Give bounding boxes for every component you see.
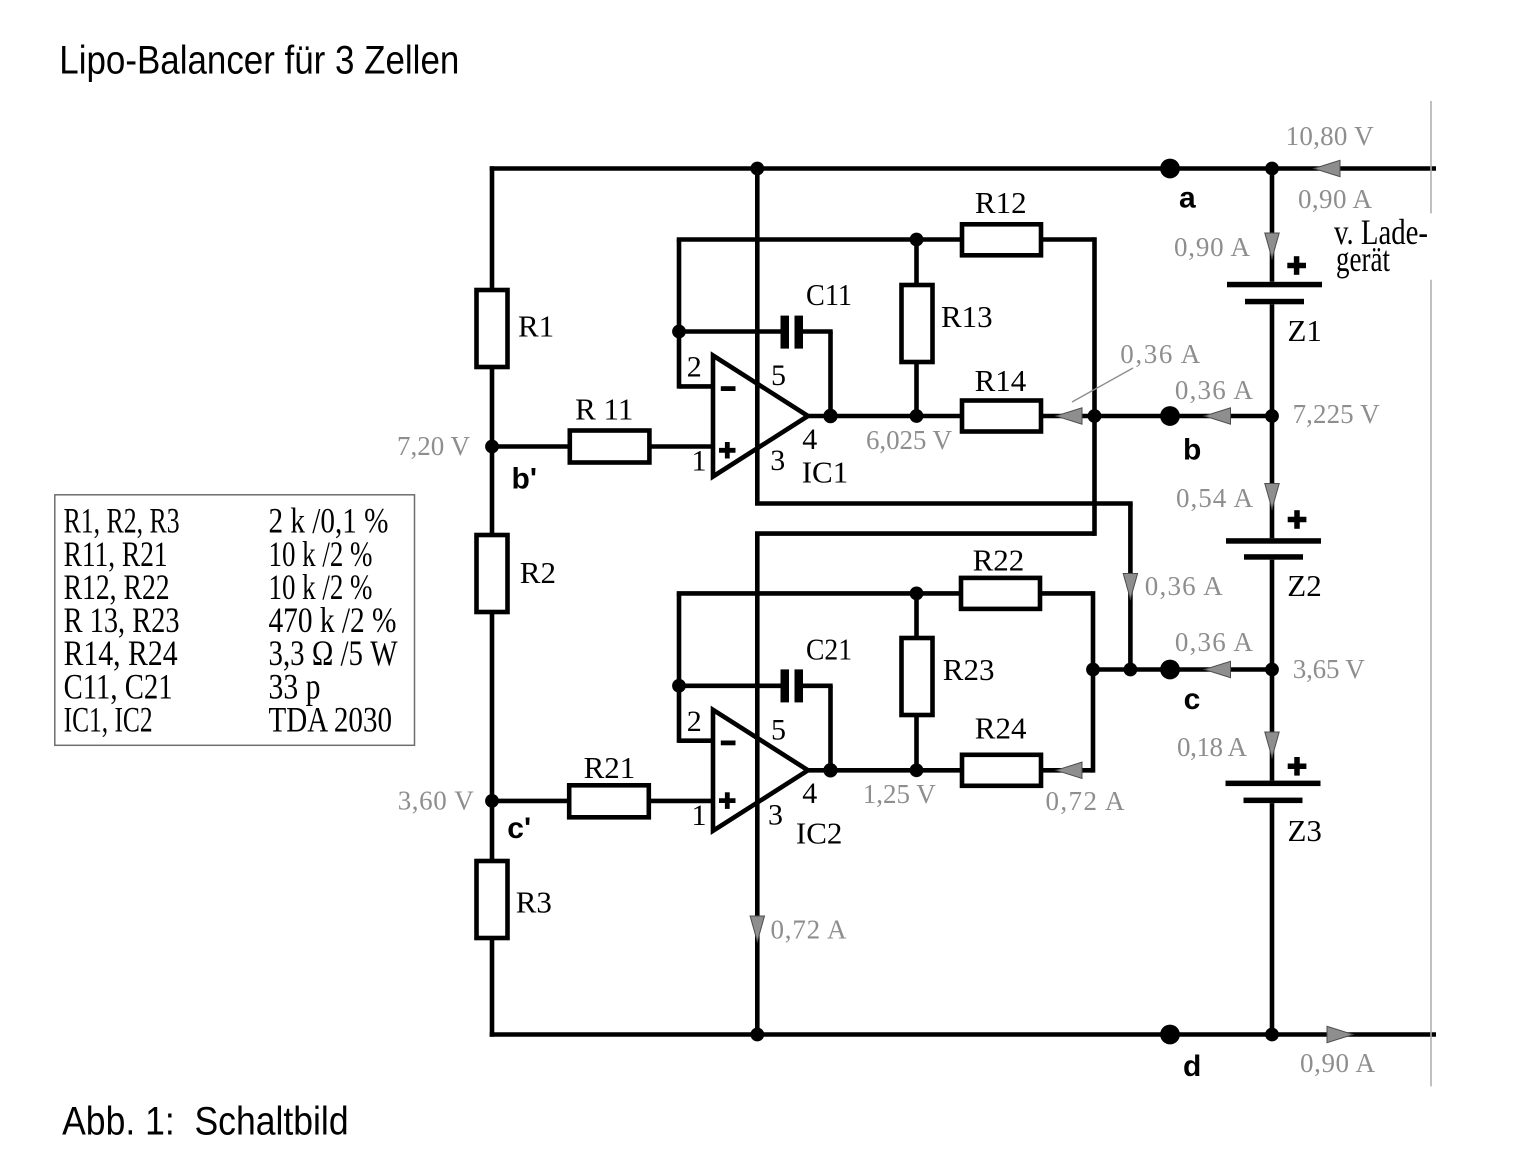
resistor R3 (477, 861, 508, 938)
op-amp IC2 triangle (713, 710, 808, 831)
svg-text:0,36 A: 0,36 A (1120, 339, 1201, 369)
battery Z2 positive plate (1226, 538, 1321, 544)
svg-text:IC2: IC2 (796, 816, 843, 851)
wire C21 left lead (679, 683, 781, 688)
svg-text:R12: R12 (975, 185, 1027, 220)
battery Z2 negative plate (1244, 554, 1303, 560)
svg-text:1: 1 (692, 799, 707, 832)
wire left vertical (R1-R2-R3 chain) (490, 166, 495, 1037)
op-amp IC1 triangle (713, 356, 808, 477)
current arrow 0,90 A into top rail (1314, 160, 1340, 176)
junction node c net / R22-R24 vertical (1086, 663, 1100, 677)
wire top rail (node a net) (490, 166, 1436, 171)
wire Z1 minus to node b (1270, 304, 1275, 416)
svg-text:R1: R1 (518, 309, 554, 344)
svg-text:R13: R13 (941, 299, 993, 334)
svg-text:0,36 A: 0,36 A (1175, 627, 1254, 657)
junction R12/R13 (910, 233, 924, 247)
svg-text:0,72 A: 0,72 A (771, 915, 848, 945)
resistor R 11 (570, 431, 650, 463)
svg-text:d: d (1183, 1050, 1201, 1083)
wire node a to Z1 plus (1270, 169, 1275, 282)
node c dot (1160, 660, 1180, 680)
wire IC1 feedback top (pin2 to R12/R13) (677, 237, 962, 242)
component value table box (55, 495, 415, 746)
wire IC2 output to R24 (806, 768, 962, 773)
wire IC1 pin3 down to node c (1128, 504, 1133, 670)
svg-text:0,36 A: 0,36 A (1175, 375, 1254, 405)
wire IC1 pin3 to node c horizontal (755, 501, 1133, 506)
current arrow 0,36 A toward node c (1205, 661, 1231, 677)
wire C11 to IC1 output (828, 332, 833, 417)
svg-text:1,25 V: 1,25 V (863, 779, 937, 809)
wire IC1 pin2 vertical (677, 240, 682, 389)
junction node b' (485, 440, 499, 454)
resistor R12 (962, 224, 1041, 255)
svg-text:5: 5 (771, 359, 786, 392)
svg-text:0,90 A: 0,90 A (1298, 184, 1373, 214)
wire C21 to IC2 output (828, 686, 833, 771)
svg-text:0,18 A: 0,18 A (1177, 732, 1248, 762)
resistor R2 (477, 535, 508, 612)
wire C11 left lead (679, 329, 781, 334)
op-amp IC1 non-inverting input plus sign (719, 448, 736, 453)
capacitor C21 left plate (781, 669, 790, 702)
current arrow 0,54 A into Z2 (1265, 484, 1279, 510)
wire node b net to IC2 pin5 horizontal (755, 531, 1095, 536)
wire IC1 output to R14 (806, 414, 962, 419)
current arrow 0,36 A toward node b (1205, 408, 1231, 424)
svg-text:0,54 A: 0,54 A (1176, 483, 1254, 513)
junction R23/output (910, 763, 924, 777)
capacitor C21 right plate (795, 669, 804, 702)
wire R22 right (1041, 591, 1093, 596)
junction R22/R23 (910, 587, 924, 601)
svg-text:4: 4 (802, 777, 817, 810)
junction R13/output (910, 409, 924, 423)
wire R14 right to node b net (1041, 414, 1095, 419)
wire Z2 minus to node c (1270, 560, 1275, 670)
page separator line (1430, 101, 1432, 213)
svg-text:c': c' (507, 812, 531, 845)
svg-text:0,90 A: 0,90 A (1174, 232, 1251, 262)
svg-text:5: 5 (771, 714, 786, 747)
svg-text:Z1: Z1 (1288, 313, 1322, 348)
svg-text:R 11: R 11 (575, 392, 633, 427)
current arrow 0,36 A into R14 (1056, 408, 1082, 424)
wire IC2 pin2 stub (679, 738, 714, 743)
op-amp IC1 inverting input minus sign (721, 386, 736, 391)
svg-text:Z2: Z2 (1287, 568, 1321, 603)
svg-text:R23: R23 (943, 652, 995, 687)
svg-text:R3: R3 (516, 884, 552, 919)
wire IC1 pin5/pin3 power vertical (top rail to node c net) (755, 169, 760, 504)
wire node b to Z2 plus (1270, 416, 1275, 538)
svg-text:7,225 V: 7,225 V (1293, 399, 1381, 429)
wire node c to Z3 plus (1270, 670, 1275, 781)
svg-text:c: c (1184, 683, 1201, 716)
svg-text:10,80 V: 10,80 V (1286, 121, 1375, 151)
current arrow 0,36 A from IC1 pin3 (1123, 574, 1137, 600)
svg-text:2: 2 (687, 351, 702, 384)
wire IC2 pin2 vertical (677, 593, 682, 743)
capacitor C11 left plate (781, 316, 790, 349)
capacitor C11 right plate (795, 316, 804, 349)
junction IC1 pin2 / C11 (672, 325, 686, 339)
svg-text:2: 2 (687, 705, 702, 738)
svg-text:TDA 2030: TDA 2030 (269, 700, 393, 740)
junction node c' (485, 794, 499, 808)
wire right vertical R12-R14 down to IC2 supply (1092, 237, 1097, 536)
svg-text:a: a (1179, 182, 1196, 215)
wire IC2 feedback top (pin2 to R22/R23) (677, 591, 961, 596)
resistor R1 (477, 290, 508, 367)
op-amp IC2 inverting input minus sign (721, 741, 736, 746)
junction bottom rail / IC2 pin3 (750, 1028, 764, 1042)
op-amp IC2 non-inverting input plus sign (719, 798, 736, 803)
resistor R22 (961, 578, 1040, 609)
svg-text:0,36 A: 0,36 A (1145, 571, 1224, 601)
svg-text:C21: C21 (806, 631, 852, 666)
current arrow 0,72 A into R24 (1056, 762, 1082, 778)
node d dot (1160, 1025, 1180, 1045)
junction IC1 output / C11 (823, 409, 837, 423)
wire R12 right (1041, 237, 1095, 242)
resistor R14 (962, 401, 1041, 432)
svg-text:3,60 V: 3,60 V (398, 786, 475, 816)
svg-text:3: 3 (770, 444, 785, 477)
battery Z1 plus sign (1287, 263, 1306, 269)
wire C21 right lead (803, 683, 833, 688)
wire R23 branch vertical (914, 593, 919, 770)
wire node b' to IC1 pin1 (through R 11) (492, 444, 713, 449)
svg-text:C11: C11 (806, 277, 852, 312)
junction top rail / IC1 pin5 (750, 162, 764, 176)
svg-text:b: b (1183, 434, 1201, 467)
battery Z2 plus sign (1288, 517, 1307, 523)
svg-text:Lipo-Balancer für 3 Zellen: Lipo-Balancer für 3 Zellen (59, 39, 459, 83)
svg-text:6,025 V: 6,025 V (866, 425, 953, 455)
svg-text:R22: R22 (973, 543, 1025, 578)
svg-text:R14: R14 (975, 363, 1027, 398)
battery Z1 negative plate (1245, 299, 1304, 305)
junction node c / battery Z2-Z3 (1265, 663, 1279, 677)
wire node c line to battery Z2/Z3 junction (1093, 667, 1272, 672)
junction top rail / battery (1265, 162, 1279, 176)
svg-text:IC1: IC1 (802, 454, 849, 489)
current arrow 0,90 A into Z1 (1265, 233, 1279, 259)
svg-text:Abb. 1: Schaltbild: Abb. 1: Schaltbild (62, 1100, 349, 1144)
current arrow 0,18 A into Z3 (1265, 732, 1279, 758)
svg-text:R24: R24 (975, 711, 1027, 746)
svg-text:Z3: Z3 (1288, 813, 1322, 848)
current arrow 0,90 A out of bottom rail (1327, 1026, 1353, 1042)
svg-text:R21: R21 (584, 750, 636, 785)
wire IC2 pin5/pin3 power vertical (node b net to bottom rail) (755, 534, 760, 1035)
wire C11 right lead (803, 329, 833, 334)
wire node b line to battery Z1/Z2 junction (1095, 414, 1273, 419)
wire bottom rail (node d net) (490, 1032, 1436, 1037)
svg-text:R2: R2 (520, 555, 556, 590)
junction node c / IC1 pin3 branch (1124, 663, 1138, 677)
current arrow 0,72 A from IC2 pin3 (750, 916, 764, 942)
wire right vertical R22-R24 (1091, 591, 1096, 773)
node a dot (1160, 159, 1180, 179)
wire node c' to IC2 pin1 (through R21) (492, 799, 713, 804)
battery Z3 plus sign (1288, 764, 1307, 770)
resistor R21 (569, 785, 649, 817)
resistor R23 (902, 638, 933, 715)
svg-text:0,90 A: 0,90 A (1300, 1048, 1376, 1078)
svg-text:1: 1 (692, 445, 707, 478)
svg-text:4: 4 (802, 423, 817, 456)
resistor R24 (962, 755, 1041, 786)
battery Z3 positive plate (1226, 781, 1321, 787)
node b dot (1160, 406, 1180, 426)
junction node b net / R12-R14 vertical (1088, 409, 1102, 423)
junction node b / battery Z1-Z2 (1265, 409, 1279, 423)
junction IC2 output / C21 (823, 763, 837, 777)
svg-text:3: 3 (768, 799, 783, 832)
svg-text:IC1, IC2: IC1, IC2 (64, 700, 153, 740)
wire R24 right to node c net (1041, 768, 1093, 773)
callout line for 0,36 A label (1072, 368, 1133, 402)
svg-text:3,65 V: 3,65 V (1293, 654, 1366, 684)
svg-text:b': b' (512, 463, 537, 496)
wire R13 branch vertical (914, 240, 919, 417)
junction IC2 pin2 / C21 (672, 679, 686, 693)
battery Z1 positive plate (1227, 282, 1322, 288)
wire IC1 pin2 stub (679, 384, 714, 389)
svg-text:0,72 A: 0,72 A (1046, 786, 1126, 816)
resistor R13 (902, 285, 933, 362)
battery Z3 negative plate (1244, 798, 1303, 804)
junction bottom rail / battery (1265, 1028, 1279, 1042)
svg-text:7,20 V: 7,20 V (397, 431, 471, 461)
svg-text:gerät: gerät (1336, 239, 1390, 279)
wire Z3 minus to node d (1270, 803, 1275, 1034)
